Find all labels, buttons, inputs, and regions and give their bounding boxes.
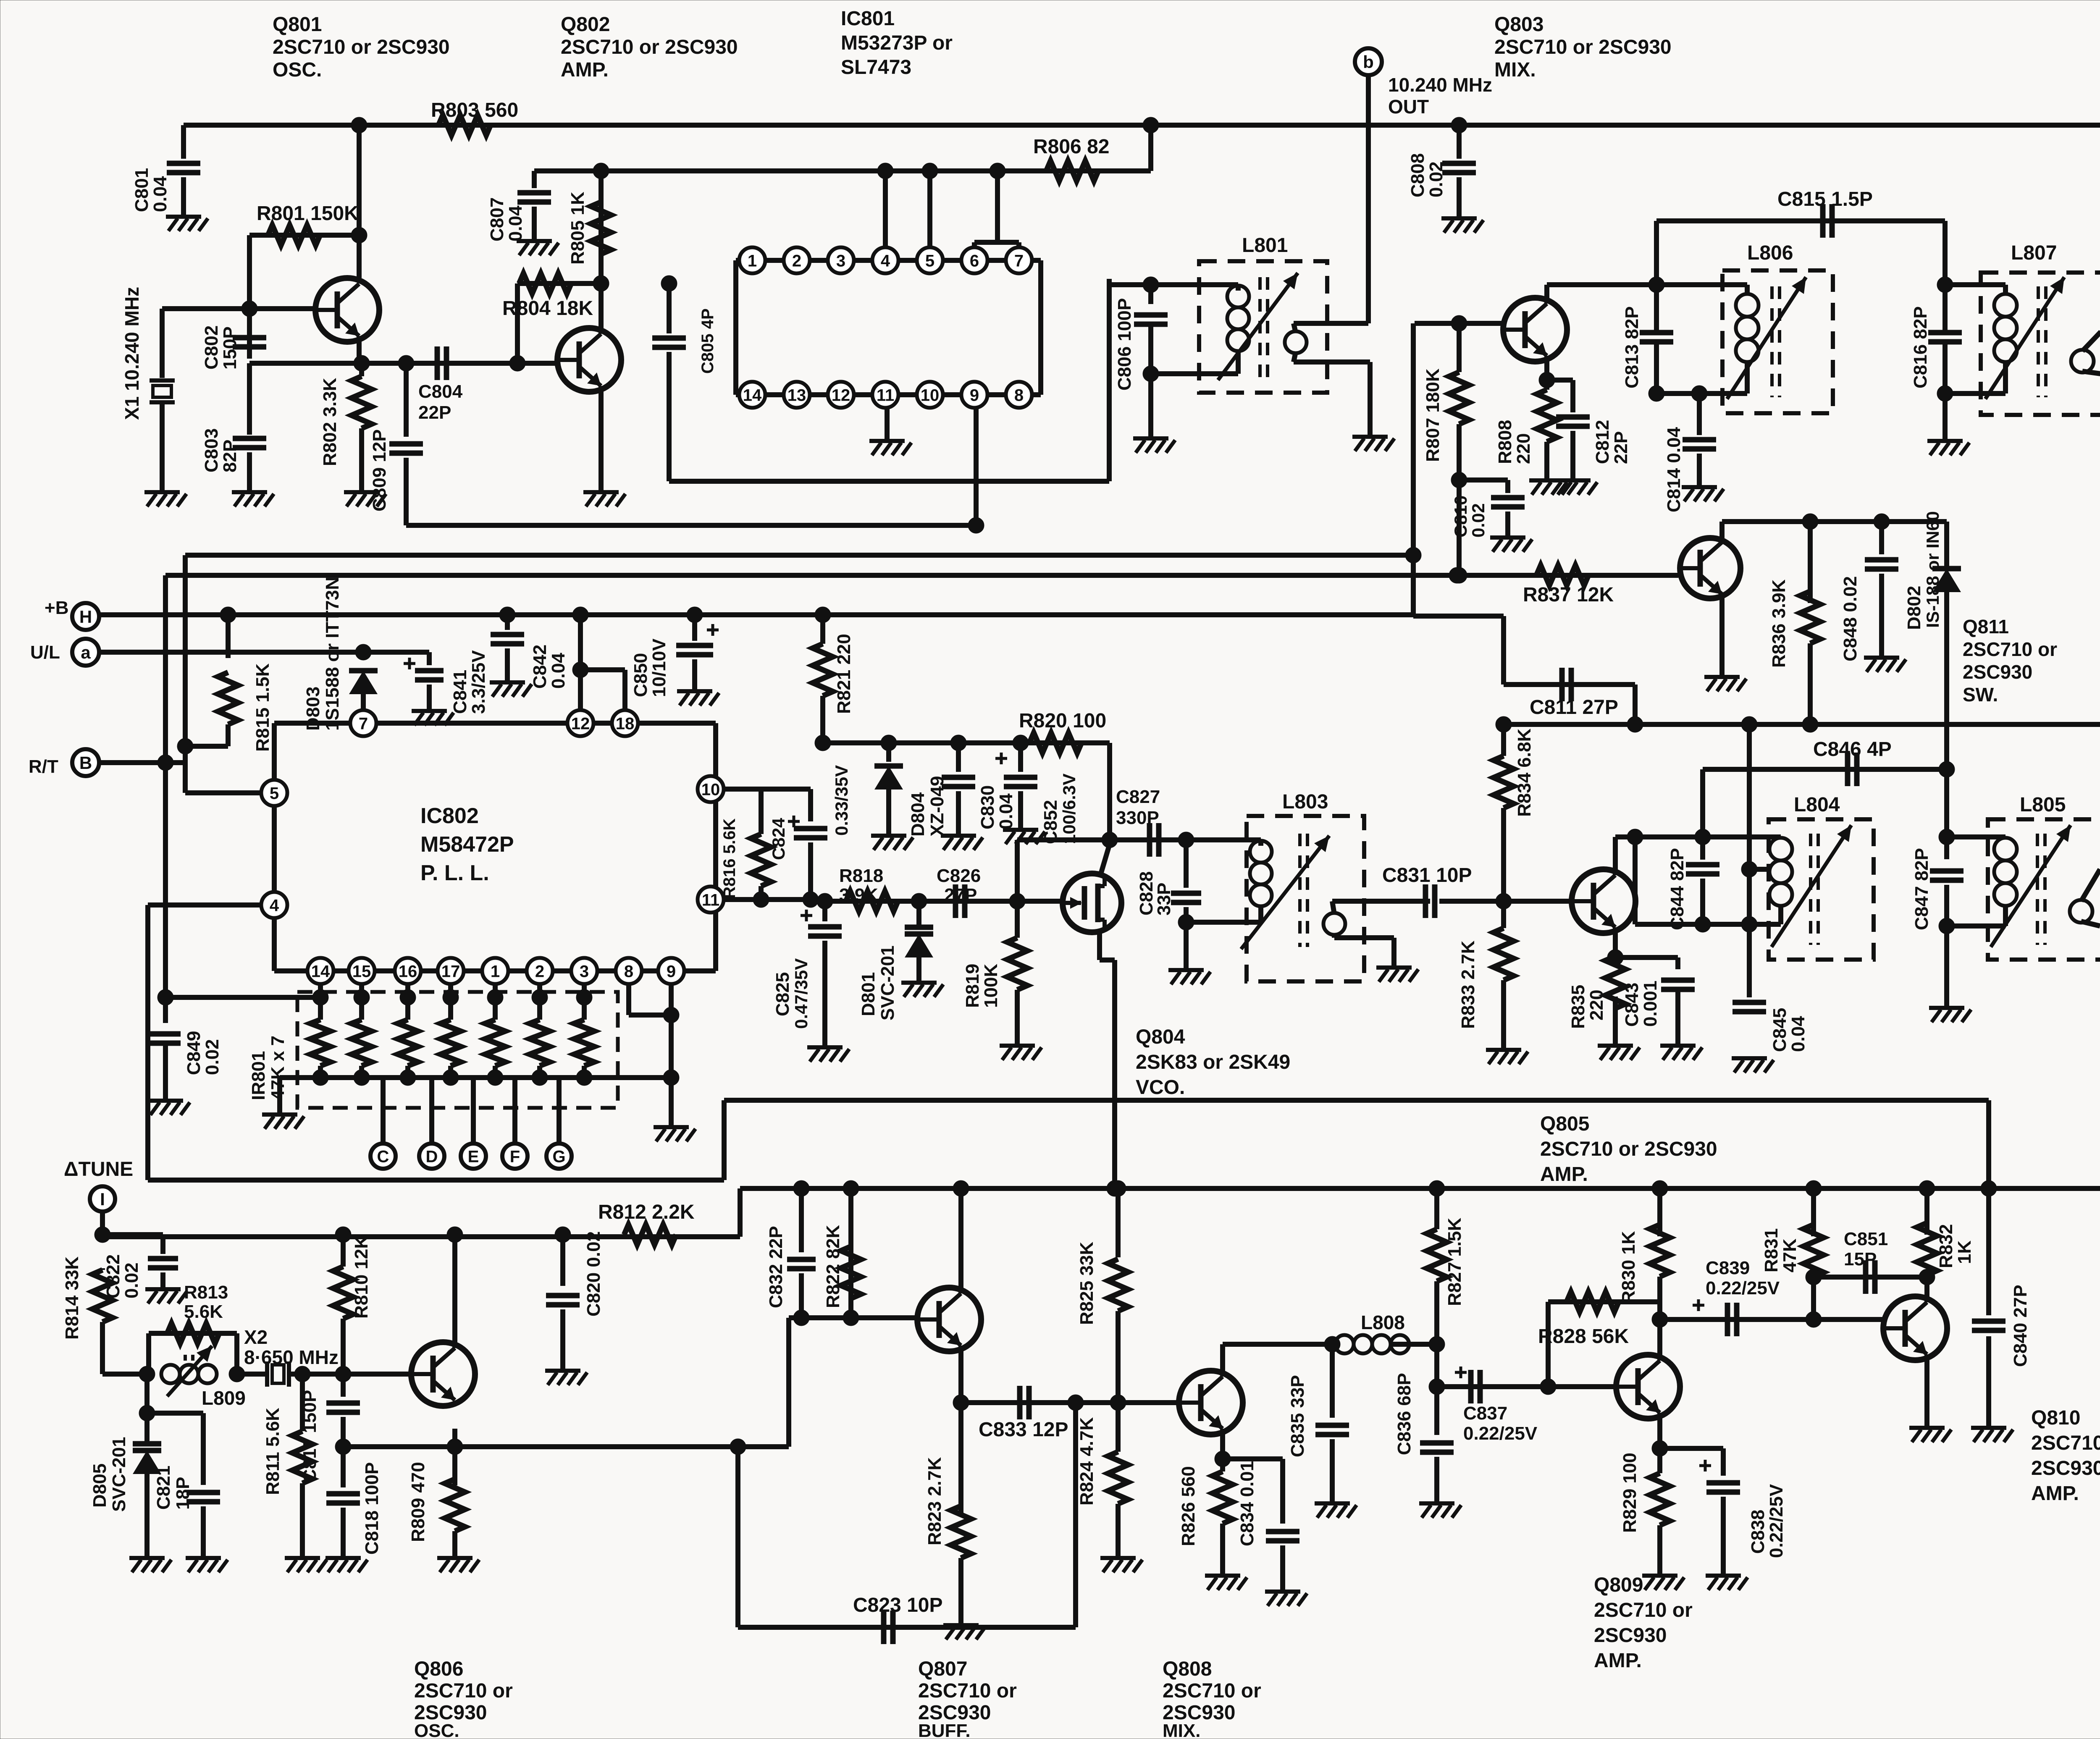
svg-text:OUT: OUT [1388,96,1429,118]
svg-text:16: 16 [399,962,417,981]
svg-text:14: 14 [743,386,762,404]
svg-text:Q811: Q811 [1963,616,2009,637]
svg-text:C826: C826 [937,866,981,886]
svg-text:0.22/25V: 0.22/25V [1706,1278,1780,1298]
svg-text:5: 5 [270,784,279,803]
svg-text:Q808: Q808 [1163,1658,1212,1680]
svg-text:C802: C802 [201,325,222,370]
svg-text:C817 150P: C817 150P [299,1390,320,1482]
svg-text:7: 7 [359,714,368,733]
svg-text:R805 1K: R805 1K [567,191,588,265]
svg-text:C842: C842 [530,645,550,689]
svg-text:AMP.: AMP. [1594,1650,1642,1672]
svg-text:R836 3.9K: R836 3.9K [1769,579,1789,668]
svg-text:22P: 22P [1611,431,1631,464]
svg-text:C846 4P: C846 4P [1813,738,1892,761]
svg-text:C825: C825 [772,972,793,1016]
svg-text:C830: C830 [977,785,998,829]
svg-text:Q809: Q809 [1594,1574,1643,1596]
svg-text:C848 0.02: C848 0.02 [1840,576,1861,661]
svg-text:6: 6 [970,252,979,270]
svg-text:X2: X2 [244,1326,268,1348]
svg-text:R825 33K: R825 33K [1076,1242,1097,1325]
svg-text:G: G [552,1147,565,1166]
svg-text:SL7473: SL7473 [841,56,911,79]
svg-text:C844 82P: C844 82P [1667,848,1688,930]
svg-text:C851: C851 [1844,1229,1888,1249]
svg-text:R837 12K: R837 12K [1523,584,1614,606]
svg-text:AMP.: AMP. [2031,1482,2079,1505]
svg-text:ΔTUNE: ΔTUNE [64,1158,133,1180]
svg-text:R802 3.3K: R802 3.3K [320,378,340,466]
svg-text:C832 22P: C832 22P [766,1226,786,1308]
svg-text:C850: C850 [630,653,651,697]
svg-text:100/6.3V: 100/6.3V [1059,774,1079,844]
svg-text:0.02: 0.02 [1426,161,1446,197]
svg-text:R829 100: R829 100 [1620,1453,1640,1533]
svg-text:C849: C849 [184,1031,204,1075]
svg-text:P. L. L.: P. L. L. [420,861,489,885]
svg-text:R830 1K: R830 1K [1618,1231,1639,1304]
svg-text:R803 560: R803 560 [431,99,518,121]
svg-text:L801: L801 [1242,234,1288,257]
svg-text:7: 7 [1014,252,1024,270]
svg-text:R824 4.7K: R824 4.7K [1076,1417,1097,1506]
svg-text:100K: 100K [981,964,1001,1008]
svg-text:3.3/25V: 3.3/25V [468,650,489,714]
svg-text:C813 82P: C813 82P [1622,306,1642,388]
svg-text:2SC710 or: 2SC710 or [1963,638,2057,660]
svg-text:b: b [1363,52,1374,72]
svg-text:C821: C821 [153,1466,174,1510]
svg-text:2SC930: 2SC930 [2031,1457,2100,1479]
svg-text:Q804: Q804 [1136,1026,1185,1048]
svg-text:SVC-201: SVC-201 [109,1437,129,1512]
svg-text:R815 1.5K: R815 1.5K [252,663,273,752]
svg-text:E: E [468,1147,479,1166]
svg-text:R812 2.2K: R812 2.2K [598,1201,695,1223]
svg-text:C824: C824 [769,818,788,860]
svg-text:C810: C810 [1451,496,1470,538]
svg-text:M58472P: M58472P [420,832,514,857]
svg-text:3: 3 [836,252,845,270]
svg-text:C806 100P: C806 100P [1114,298,1135,391]
svg-text:33P: 33P [1154,883,1174,915]
svg-text:2: 2 [792,252,801,270]
svg-text:R834 6.8K: R834 6.8K [1514,728,1535,817]
svg-text:MIX.: MIX. [1163,1721,1200,1739]
svg-text:0.22/25V: 0.22/25V [1766,1484,1787,1558]
svg-text:Q802: Q802 [561,13,610,36]
svg-text:H: H [79,607,92,627]
svg-text:SW.: SW. [1963,684,1998,706]
svg-text:R/T: R/T [29,756,58,777]
svg-text:R816 5.6K: R816 5.6K [720,818,739,899]
svg-text:3: 3 [580,962,589,981]
svg-text:11: 11 [702,891,719,909]
svg-text:R814 33K: R814 33K [62,1256,82,1340]
svg-text:R828 56K: R828 56K [1538,1325,1629,1348]
svg-text:C836 68P: C836 68P [1394,1373,1415,1455]
svg-text:17: 17 [441,962,460,981]
svg-text:C801: C801 [131,168,152,212]
svg-text:OSC.: OSC. [273,59,322,81]
svg-text:R813: R813 [184,1282,228,1303]
svg-text:C809 12P: C809 12P [369,429,390,511]
svg-text:3.9K: 3.9K [839,885,878,905]
svg-text:0.04: 0.04 [150,176,171,212]
svg-text:C807: C807 [487,197,507,241]
svg-text:4: 4 [270,896,279,915]
svg-text:18P: 18P [173,1477,193,1510]
svg-text:0.04: 0.04 [548,653,569,689]
svg-text:L803: L803 [1282,791,1328,813]
svg-text:9: 9 [970,386,979,404]
svg-text:AMP.: AMP. [561,59,609,81]
svg-text:0.02: 0.02 [202,1039,223,1075]
svg-text:4: 4 [881,252,890,270]
svg-text:2SC930: 2SC930 [1963,661,2032,683]
svg-text:Q803: Q803 [1494,13,1543,36]
svg-text:5.6K: 5.6K [184,1301,223,1322]
svg-text:R832: R832 [1936,1224,1956,1268]
svg-text:220: 220 [1513,433,1534,464]
svg-text:C840 27P: C840 27P [2010,1285,2031,1367]
svg-text:C803: C803 [201,428,222,472]
svg-text:C847 82P: C847 82P [1911,848,1932,930]
svg-text:2SC710 or: 2SC710 or [414,1680,513,1702]
svg-text:22P: 22P [418,402,451,423]
svg-text:330P: 330P [1116,808,1159,828]
svg-text:0.04: 0.04 [1788,1016,1809,1052]
svg-text:C811 27P: C811 27P [1530,696,1618,719]
svg-text:R823 2.7K: R823 2.7K [924,1457,945,1545]
svg-text:2SC930: 2SC930 [1594,1624,1667,1647]
svg-text:47K: 47K [1780,1238,1800,1272]
svg-text:0.04: 0.04 [996,793,1016,829]
svg-text:18: 18 [616,714,635,733]
svg-text:C818 100P: C818 100P [362,1462,382,1555]
svg-text:C835 33P: C835 33P [1287,1375,1308,1457]
svg-text:M53273P or: M53273P or [841,32,953,54]
svg-text:L804: L804 [1794,794,1840,816]
svg-text:0.001: 0.001 [1640,981,1661,1027]
svg-text:10: 10 [701,780,720,799]
svg-text:X1 10.240 MHz: X1 10.240 MHz [121,287,143,420]
svg-text:2SC710 or: 2SC710 or [1594,1599,1693,1621]
svg-text:D802: D802 [1904,586,1924,630]
svg-text:220: 220 [1586,990,1607,1020]
svg-text:U/L: U/L [30,642,60,663]
svg-text:Q805: Q805 [1540,1113,1589,1135]
svg-text:C820 0.02: C820 0.02 [583,1231,604,1317]
svg-text:AMP.: AMP. [1540,1163,1588,1186]
svg-text:8·650 MHz: 8·650 MHz [244,1346,339,1368]
svg-text:8: 8 [1014,386,1024,404]
svg-text:L807: L807 [2011,242,2057,264]
svg-text:IS-188 or IN60: IS-188 or IN60 [1923,511,1942,628]
svg-text:82P: 82P [220,440,240,472]
svg-text:R833 2.7K: R833 2.7K [1458,940,1478,1029]
svg-text:12: 12 [571,714,590,733]
svg-text:C841: C841 [450,670,470,714]
svg-text:2SC710 or: 2SC710 or [1163,1680,1261,1702]
svg-text:0.47/35V: 0.47/35V [791,958,811,1029]
svg-text:5: 5 [925,252,934,270]
svg-text:C822: C822 [103,1254,123,1298]
svg-text:BUFF.: BUFF. [918,1721,971,1739]
svg-text:0.02: 0.02 [1468,503,1488,538]
svg-text:R806 82: R806 82 [1033,136,1109,158]
svg-text:R821 220: R821 220 [834,634,854,714]
svg-text:0.04: 0.04 [505,205,526,241]
svg-text:0.02: 0.02 [121,1262,142,1298]
svg-text:C837: C837 [1463,1403,1507,1424]
svg-text:27P: 27P [944,885,977,905]
svg-text:F: F [510,1147,520,1166]
svg-text:SVC-201: SVC-201 [877,945,898,1020]
svg-text:Q806: Q806 [414,1658,463,1680]
svg-text:0.33/35V: 0.33/35V [832,765,851,836]
svg-text:R808: R808 [1495,420,1515,464]
svg-text:0.22/25V: 0.22/25V [1463,1423,1538,1444]
svg-text:C834 0.01: C834 0.01 [1237,1461,1257,1546]
svg-text:R819: R819 [962,964,983,1008]
svg-text:R804 18K: R804 18K [502,297,593,320]
svg-text:R822 82K: R822 82K [823,1225,843,1308]
svg-text:D805: D805 [89,1464,110,1508]
svg-text:I: I [100,1189,105,1209]
svg-text:12: 12 [832,386,850,404]
svg-text:B: B [79,753,92,773]
svg-text:L806: L806 [1747,242,1793,264]
svg-text:C845: C845 [1769,1008,1790,1052]
svg-text:Q810: Q810 [2031,1407,2080,1429]
svg-text:15P: 15P [1844,1249,1877,1269]
svg-text:R818: R818 [839,866,883,886]
svg-text:2SC710 or: 2SC710 or [2031,1432,2100,1454]
svg-text:2SK83 or 2SK49: 2SK83 or 2SK49 [1136,1051,1290,1073]
svg-text:R827 1.5K: R827 1.5K [1444,1217,1465,1306]
svg-text:C804: C804 [418,381,463,402]
svg-text:1K: 1K [1954,1241,1975,1264]
svg-text:13: 13 [787,386,806,404]
svg-text:R835: R835 [1568,985,1588,1029]
svg-text:D: D [426,1147,438,1166]
svg-text:R811 5.6K: R811 5.6K [262,1408,283,1495]
svg-text:1S1588 or ITT73N: 1S1588 or ITT73N [322,577,343,731]
svg-text:C827: C827 [1116,787,1160,807]
svg-text:+B: +B [45,598,68,618]
svg-text:2SC710 or 2SC930: 2SC710 or 2SC930 [1494,36,1672,58]
svg-text:C805 4P: C805 4P [698,308,717,374]
svg-text:2: 2 [535,962,544,981]
svg-text:IC802: IC802 [420,804,479,828]
svg-text:C814 0.04: C814 0.04 [1664,427,1684,512]
svg-text:IR801: IR801 [248,1051,269,1100]
svg-text:R807 180K: R807 180K [1423,368,1443,462]
svg-text:2SC710 or 2SC930: 2SC710 or 2SC930 [273,36,450,58]
svg-text:2SC710 or 2SC930: 2SC710 or 2SC930 [561,36,738,58]
svg-text:OSC.: OSC. [414,1721,459,1739]
svg-text:C843: C843 [1622,983,1642,1027]
svg-text:Q801: Q801 [273,13,322,36]
svg-text:MIX.: MIX. [1494,59,1536,81]
svg-text:a: a [81,643,91,662]
svg-text:R826 560: R826 560 [1178,1466,1199,1546]
svg-text:1: 1 [748,252,757,270]
svg-text:2SC710 or: 2SC710 or [918,1680,1017,1702]
svg-text:14: 14 [311,962,330,981]
svg-text:IC801: IC801 [841,8,895,30]
svg-text:C816 82P: C816 82P [1910,306,1931,388]
svg-text:10: 10 [921,386,940,404]
svg-text:L809: L809 [202,1387,246,1409]
svg-text:L805: L805 [2020,794,2066,816]
svg-text:15: 15 [352,962,371,981]
svg-text:C815 1.5P: C815 1.5P [1777,188,1873,210]
svg-text:R809 470: R809 470 [408,1462,428,1542]
svg-text:Q807: Q807 [918,1658,967,1680]
svg-text:R801 150K: R801 150K [257,202,359,225]
svg-text:2SC710 or 2SC930: 2SC710 or 2SC930 [1540,1138,1717,1160]
svg-text:10/10V: 10/10V [649,638,669,697]
svg-text:C839: C839 [1706,1258,1750,1278]
svg-text:R810 12K: R810 12K [351,1235,372,1319]
svg-text:C831 10P: C831 10P [1382,864,1472,887]
svg-text:8: 8 [624,962,633,981]
svg-text:150P: 150P [220,326,240,370]
svg-text:47K x 7: 47K x 7 [268,1036,288,1100]
svg-text:C812: C812 [1592,420,1613,464]
svg-text:D804: D804 [908,792,928,837]
svg-text:9: 9 [667,962,676,981]
svg-text:11: 11 [877,386,894,404]
svg-text:10.240 MHz: 10.240 MHz [1388,74,1492,96]
svg-text:R820 100: R820 100 [1019,710,1106,732]
svg-text:L808: L808 [1361,1311,1405,1333]
svg-text:C833 12P: C833 12P [979,1419,1068,1441]
svg-text:D801: D801 [858,972,879,1016]
svg-text:C823 10P: C823 10P [853,1594,943,1616]
svg-text:1: 1 [491,962,500,981]
svg-text:VCO.: VCO. [1136,1076,1185,1099]
svg-text:C: C [377,1147,389,1166]
svg-text:R831: R831 [1761,1228,1782,1272]
svg-text:C808: C808 [1407,153,1428,197]
svg-text:C838: C838 [1748,1510,1768,1554]
